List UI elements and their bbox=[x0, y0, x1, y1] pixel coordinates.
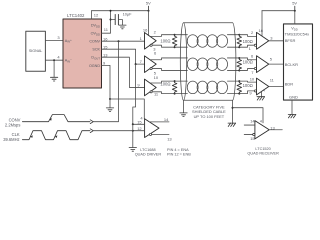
twisted pair ch1 bbox=[187, 35, 227, 48]
svg-text:VDD: VDD bbox=[291, 27, 298, 32]
svg-text:13: 13 bbox=[167, 137, 172, 142]
receiver1 output pin3 to BFSR bbox=[269, 40, 284, 42]
driver 4 (LTC1688 ch4, clock) bbox=[145, 119, 159, 138]
wire SCK net down to driver 4 / CLK bbox=[133, 64, 136, 124]
svg-text:12: 12 bbox=[94, 13, 99, 18]
wire OGND branch to driver4 ENA bbox=[110, 99, 144, 119]
driver4 output+ pin14 bbox=[149, 121, 169, 123]
resistor R2 100ohm left ch3 bbox=[174, 80, 176, 82]
driver 3 (LTC1688 ch3) bbox=[145, 79, 157, 96]
wire pair ch3 to cable bbox=[175, 81, 188, 94]
svg-text:DVDD: DVDD bbox=[91, 24, 100, 29]
svg-text:13: 13 bbox=[103, 52, 108, 57]
driver2 output- pin5 with bubble bbox=[150, 67, 152, 69]
wire 5V to DSP VDD bbox=[294, 11, 296, 24]
node rail/OVDD junction bbox=[110, 10, 112, 12]
resistor R5 100ohm right ch3 bbox=[238, 80, 240, 82]
node AIN- junction bbox=[53, 59, 55, 61]
capacitor C1 10uF bbox=[111, 19, 116, 21]
node CONV junction bbox=[118, 40, 120, 42]
driver1 output+ pin2 bbox=[150, 35, 175, 37]
svg-text:15: 15 bbox=[250, 136, 255, 141]
svg-text:UP TO 100 FEET: UP TO 100 FEET bbox=[194, 114, 225, 119]
svg-text:6: 6 bbox=[251, 53, 254, 58]
wire ch3 to receiver3 inputs with jog bbox=[239, 80, 256, 83]
ground (left shield) bbox=[180, 113, 187, 117]
CLK output arrow bbox=[90, 129, 93, 133]
svg-text:5: 5 bbox=[270, 57, 273, 62]
svg-text:100Ω: 100Ω bbox=[243, 83, 253, 88]
svg-text:11: 11 bbox=[270, 78, 275, 83]
svg-text:2: 2 bbox=[154, 30, 157, 35]
wire pair ch1 cable to receiver resistor bbox=[227, 35, 239, 48]
receiver 3 (LTC1520 ch3) bbox=[257, 78, 269, 95]
svg-text:100Ω: 100Ω bbox=[243, 60, 253, 65]
driver4 input pin12 (ENB) bbox=[133, 130, 145, 132]
driver1 output- pin3 with bubble bbox=[150, 44, 152, 46]
svg-text:16: 16 bbox=[103, 36, 108, 41]
ground (cap) bbox=[119, 25, 126, 29]
svg-text:7: 7 bbox=[140, 59, 143, 64]
node shield branch junction bbox=[232, 107, 234, 109]
svg-text:10µF: 10µF bbox=[123, 11, 133, 16]
wire pair ch2 cable to receiver resistor bbox=[227, 58, 239, 70]
node SCK/CLK junction bbox=[135, 63, 137, 65]
receiver 4 (LTC1520 ch4) bbox=[255, 121, 269, 139]
svg-text:BFSR: BFSR bbox=[285, 38, 296, 43]
svg-text:11: 11 bbox=[104, 27, 109, 32]
svg-text:OGND: OGND bbox=[89, 64, 100, 68]
ground (driver4 inputs) bbox=[129, 148, 136, 152]
svg-text:QUAD DRIVER: QUAD DRIVER bbox=[135, 152, 162, 156]
wire pair ch3 cable to receiver resistor bbox=[227, 81, 239, 94]
svg-text:1: 1 bbox=[249, 46, 252, 51]
wire SCK pin15 to driver 2 input bbox=[102, 49, 145, 64]
ground (AIN-) bbox=[50, 77, 57, 81]
svg-text:15: 15 bbox=[137, 120, 142, 125]
svg-text:16: 16 bbox=[143, 28, 148, 33]
wire CONV vertical down to CONV source bbox=[94, 41, 119, 122]
svg-text:CONV: CONV bbox=[89, 40, 100, 44]
svg-text:5V: 5V bbox=[292, 1, 297, 6]
wire ch2 to receiver2 inputs with jog bbox=[239, 58, 256, 60]
svg-text:4: 4 bbox=[57, 54, 60, 59]
CONV edge arrow bbox=[49, 118, 51, 121]
driver4 output- pin13 with bubble bbox=[149, 133, 151, 135]
wire CLK to driver4 bbox=[94, 130, 133, 132]
receiver2 output pin5 to BCLKR bbox=[269, 63, 284, 65]
pin 11 OVDD stub bbox=[102, 11, 111, 34]
wire left shield to ground bbox=[183, 100, 185, 112]
pin 12 DVDD stub to 5V rail bbox=[91, 11, 93, 19]
svg-text:GND: GND bbox=[289, 94, 298, 99]
wire right shield down bbox=[232, 100, 234, 123]
wire AIN- to ground bbox=[53, 60, 55, 77]
svg-text:SIGNAL: SIGNAL bbox=[29, 49, 43, 53]
chassis ground (DSP) bbox=[288, 115, 296, 118]
svg-text:OVDD: OVDD bbox=[91, 32, 100, 37]
svg-text:100Ω: 100Ω bbox=[160, 38, 170, 43]
wire 5V to driver VCC pin 16 bbox=[148, 11, 150, 36]
svg-text:9: 9 bbox=[249, 91, 252, 96]
svg-text:2: 2 bbox=[251, 30, 254, 35]
svg-text:LTC1402: LTC1402 bbox=[67, 13, 85, 18]
svg-text:14: 14 bbox=[250, 119, 255, 124]
driver3 output- pin11 with bubble bbox=[150, 91, 152, 93]
receiver3 GND pin4 bbox=[261, 92, 263, 97]
svg-text:DOUT: DOUT bbox=[91, 56, 100, 61]
ADC U1 LTC1402 body bbox=[63, 19, 102, 88]
5V rail (top left) bbox=[92, 10, 149, 12]
node OGND junction bbox=[109, 98, 111, 100]
receiver4 output pin13 bbox=[269, 129, 282, 131]
svg-text:SCK: SCK bbox=[92, 48, 100, 52]
resistor R1 100ohm left ch1 bbox=[174, 34, 176, 36]
svg-text:1: 1 bbox=[140, 36, 143, 41]
svg-text:4: 4 bbox=[260, 118, 263, 123]
cable caption bbox=[192, 104, 226, 118]
svg-text:2.2Msps: 2.2Msps bbox=[5, 122, 20, 127]
wire AIN+ (SIGNAL to pin 3) bbox=[45, 40, 63, 42]
CONV waveform bbox=[22, 115, 90, 122]
twisted pair ch3 bbox=[187, 81, 227, 94]
svg-text:12: 12 bbox=[137, 126, 142, 131]
svg-text:10: 10 bbox=[250, 76, 255, 81]
svg-text:7: 7 bbox=[251, 70, 254, 75]
driver4 input pin15 bbox=[133, 123, 145, 125]
node cap tap junction bbox=[110, 19, 112, 21]
svg-text:QUAD RECEIVER: QUAD RECEIVER bbox=[247, 151, 279, 155]
CLK edge arrows bbox=[30, 135, 32, 138]
SIGNAL source box bbox=[26, 31, 46, 71]
wire driver4 tie down to ground bbox=[132, 124, 134, 147]
svg-text:3: 3 bbox=[57, 35, 60, 40]
wire AIN- (SIGNAL to pin 4) bbox=[45, 59, 63, 61]
cable shield bbox=[180, 23, 236, 101]
svg-text:PIN 12 = ENB: PIN 12 = ENB bbox=[167, 152, 191, 156]
svg-text:4: 4 bbox=[263, 87, 266, 92]
5V supply tick (left) bbox=[148, 10, 150, 12]
svg-text:16: 16 bbox=[259, 28, 264, 33]
svg-text:5V: 5V bbox=[146, 1, 151, 6]
resistor R4 100ohm right ch2 bbox=[238, 57, 240, 59]
resistor R3 100ohm right ch1 bbox=[238, 34, 240, 36]
driver3 output+ pin10 bbox=[150, 81, 175, 83]
svg-text:TMS320C54x: TMS320C54x bbox=[285, 32, 309, 37]
driver 2 (LTC1688 ch2) bbox=[145, 56, 157, 73]
svg-text:10: 10 bbox=[154, 75, 159, 80]
CLK waveform bbox=[22, 131, 90, 140]
wire pair ch1 to cable bbox=[175, 35, 188, 48]
svg-text:13: 13 bbox=[270, 125, 275, 130]
receiver 2 (LTC1520 ch2) bbox=[257, 56, 269, 73]
svg-text:BCLKR: BCLKR bbox=[285, 62, 298, 67]
wire OGND pin9 down to ground bbox=[102, 65, 111, 99]
driver2 output+ pin6 bbox=[150, 58, 187, 60]
receiver1 VCC pin16 bbox=[261, 11, 263, 37]
wire CONV pin16 to driver 1 input bbox=[102, 40, 145, 42]
chassis ground (right shield) bbox=[228, 123, 236, 126]
5V supply right bbox=[262, 10, 295, 12]
CONV output arrow bbox=[90, 120, 93, 124]
svg-text:3: 3 bbox=[270, 36, 273, 41]
wire shield branch to receiver4 pin4 bbox=[233, 108, 264, 123]
svg-text:100Ω: 100Ω bbox=[243, 39, 253, 44]
wire ch1 to receiver1 inputs with jog bbox=[239, 35, 256, 37]
receiver3 output pin11 to BDR bbox=[269, 86, 284, 88]
receiver 1 (LTC1520 ch1) bbox=[257, 32, 269, 49]
DSP box TMS320C54x bbox=[284, 24, 313, 100]
wire DSP GND to ground bbox=[291, 100, 293, 114]
svg-text:39.6MHz: 39.6MHz bbox=[3, 137, 19, 142]
svg-text:BDR: BDR bbox=[285, 81, 294, 86]
wire DOUT pin13 to driver 3 input bbox=[102, 57, 145, 87]
receiver4 input pin15 with bubble bbox=[244, 133, 253, 135]
transistor-style driver 1 (LTC1688 ch1) bbox=[145, 33, 157, 50]
svg-text:9: 9 bbox=[137, 83, 140, 88]
ground (OGND) bbox=[106, 108, 113, 112]
svg-text:9: 9 bbox=[103, 61, 106, 66]
twisted pair ch2 bbox=[187, 58, 227, 71]
svg-text:14: 14 bbox=[164, 117, 169, 122]
pin labels inside LTC1402 bbox=[89, 24, 101, 68]
svg-text:6: 6 bbox=[154, 51, 157, 56]
svg-text:15: 15 bbox=[103, 44, 108, 49]
svg-text:100Ω: 100Ω bbox=[160, 81, 170, 86]
chassis ground (receiver3) bbox=[257, 97, 265, 100]
receiver4 input pin14 bbox=[244, 124, 255, 126]
